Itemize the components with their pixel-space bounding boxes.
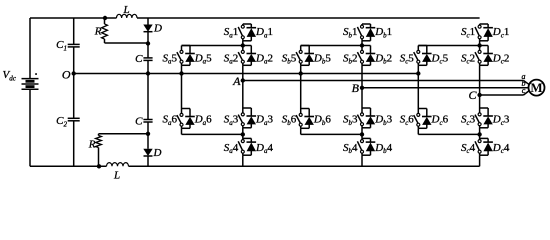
- transistor Sc3 with diode Dc3: [475, 108, 493, 128]
- label phase c: [522, 86, 526, 95]
- svg-text:R: R: [94, 26, 102, 38]
- wire phase a output: [243, 81, 530, 85]
- wire phase c output: [480, 91, 530, 96]
- junction Sa1/Sa2/Sa5: [241, 43, 245, 47]
- label Sa5: [163, 52, 178, 65]
- svg-text:Db5: Db5: [313, 52, 331, 65]
- wire Sc5 to O rail: [417, 65, 419, 73]
- wire Sc2 to node C: [479, 65, 481, 95]
- wire Sb6 to junction: [301, 128, 362, 134]
- wire Sb4 to bottom rail: [361, 155, 363, 166]
- capacitor C (top flying): [143, 58, 152, 61]
- wire Sa6 to junction: [182, 128, 243, 134]
- battery Vdc: [22, 18, 39, 166]
- wire junction to Sa4: [242, 134, 244, 138]
- svg-text:C1: C1: [56, 39, 67, 52]
- junction Sa3/Sa4/Sa6: [241, 132, 245, 136]
- wire node C to Sc3: [479, 95, 481, 108]
- wire C1 column top: [73, 18, 75, 44]
- svg-text:O: O: [62, 68, 71, 82]
- junction Sb1/Sb2/Sb5: [360, 43, 364, 47]
- label Sb5: [282, 52, 297, 65]
- label Sc6: [400, 114, 415, 127]
- svg-text:L: L: [122, 4, 129, 16]
- transistor Sb4 with diode Db4: [357, 138, 375, 155]
- svg-text:Sb2: Sb2: [343, 52, 358, 65]
- wire midpoint to Sc5: [418, 45, 479, 47]
- wire Sb3 to junction: [361, 128, 363, 135]
- label C (top flying): [135, 53, 143, 65]
- svg-text:Db3: Db3: [374, 114, 392, 127]
- label R (bottom): [88, 139, 96, 151]
- node A: [241, 78, 245, 82]
- label node C: [468, 88, 477, 102]
- wire Sc1 to midpoint: [479, 41, 481, 46]
- wire C1 to O: [73, 47, 75, 74]
- label node A: [232, 74, 241, 88]
- transistor Sa4 with diode Da4: [238, 138, 256, 155]
- svg-text:Db4: Db4: [374, 142, 392, 155]
- svg-text:Sc2: Sc2: [461, 52, 475, 65]
- label C1: [56, 39, 67, 52]
- svg-text:Sa6: Sa6: [163, 114, 178, 127]
- label Dc3: [492, 114, 510, 127]
- wire junction to C (top): [147, 44, 149, 58]
- svg-text:Sa3: Sa3: [224, 114, 239, 127]
- label L (bottom): [113, 170, 120, 182]
- label L (top): [122, 4, 129, 16]
- label Da2: [255, 52, 273, 65]
- transistor Sa6 with diode Da6: [177, 109, 195, 129]
- svg-text:c: c: [522, 86, 526, 95]
- svg-text:Da4: Da4: [255, 142, 273, 155]
- svg-text:M: M: [530, 80, 542, 95]
- svg-text:Da3: Da3: [255, 114, 273, 127]
- label Db4: [374, 142, 392, 155]
- label R (top): [94, 26, 102, 38]
- transistor Sb1 with diode Db1: [357, 24, 375, 41]
- wire Sc4 to bottom rail: [479, 155, 481, 166]
- label Sa4: [224, 142, 239, 155]
- label Db2: [374, 52, 392, 65]
- label Sa2: [224, 52, 239, 65]
- wire Sa1 to midpoint: [242, 41, 244, 46]
- svg-text:Sa4: Sa4: [224, 142, 239, 155]
- wire phase b output: [362, 87, 529, 89]
- label Da1: [255, 26, 273, 39]
- wire R to D junction (top): [105, 42, 149, 44]
- inductor L (bottom): [107, 163, 129, 167]
- transistor Sa1 with diode Da1: [238, 24, 256, 41]
- wire Sb2 to node B: [361, 65, 363, 88]
- svg-text:Sc3: Sc3: [461, 114, 476, 127]
- junction R-D-C (top): [146, 41, 150, 45]
- svg-text:Da1: Da1: [255, 26, 273, 39]
- motor M: [529, 80, 545, 96]
- svg-text:Da2: Da2: [255, 52, 273, 65]
- svg-text:Dc4: Dc4: [492, 142, 510, 155]
- transistor Sa3 with diode Da3: [238, 108, 256, 128]
- diode D (top clamp): [143, 18, 152, 44]
- wire O neutral rail: [74, 73, 419, 75]
- capacitor C1: [68, 44, 80, 47]
- wire O rail to Sb6: [300, 74, 302, 109]
- label Sc1: [461, 26, 475, 39]
- inductor L (top): [117, 14, 138, 18]
- svg-text:Db6: Db6: [313, 114, 331, 127]
- wire C2 column bottom: [73, 121, 75, 167]
- wire bottom DC rail (right): [129, 165, 480, 167]
- node B: [360, 86, 364, 90]
- svg-text:Dc6: Dc6: [431, 114, 449, 127]
- junction Sa5/Sa6/O rail: [179, 71, 183, 75]
- transistor Sb3 with diode Db3: [357, 108, 375, 128]
- junction Sc5/Sc6/O rail: [416, 71, 420, 75]
- svg-text:D: D: [153, 147, 162, 159]
- junction R-D-C (bottom): [146, 132, 150, 136]
- label Da6: [194, 114, 212, 127]
- wire C to junction (bottom): [147, 122, 149, 134]
- svg-text:Sc4: Sc4: [461, 142, 476, 155]
- transistor Sa5 with diode Da5: [177, 46, 195, 66]
- wire Sa4 to bottom rail: [242, 155, 244, 166]
- label Dc5: [431, 52, 449, 65]
- svg-text:C: C: [135, 53, 143, 65]
- svg-text:Sa1: Sa1: [224, 26, 239, 39]
- svg-text:B: B: [352, 81, 360, 95]
- transistor Sb2 with diode Db2: [357, 46, 375, 66]
- svg-text:Sc1: Sc1: [461, 26, 475, 39]
- label Sb6: [282, 114, 297, 127]
- svg-text:Dc5: Dc5: [431, 52, 449, 65]
- junction C / O rail (top): [146, 71, 150, 75]
- label Da3: [255, 114, 273, 127]
- svg-text:Sb1: Sb1: [343, 26, 358, 39]
- wire Sc6 to junction: [418, 128, 479, 134]
- junction Sb3/Sb4/Sb6: [360, 132, 364, 136]
- label Vdc: [3, 69, 17, 82]
- label C2: [56, 115, 67, 128]
- svg-text:Sb3: Sb3: [343, 114, 358, 127]
- label C (bottom flying): [135, 116, 143, 128]
- label Sc4: [461, 142, 476, 155]
- label node B: [352, 81, 360, 95]
- svg-text:C: C: [135, 116, 143, 128]
- diode D (bottom clamp): [143, 134, 152, 167]
- label Dc6: [431, 114, 449, 127]
- label Sb1: [343, 26, 358, 39]
- label D (top clamp): [153, 23, 162, 35]
- wire O rail to Sa6: [181, 74, 183, 109]
- wire Sa3 to junction: [242, 128, 244, 135]
- wire O rail to C (bottom): [147, 74, 149, 120]
- svg-text:Db2: Db2: [374, 52, 392, 65]
- junction Sc1/Sc2/Sc5: [477, 43, 481, 47]
- svg-text:Sb6: Sb6: [282, 114, 297, 127]
- wire Sb5 to O rail: [300, 65, 302, 73]
- label Sb3: [343, 114, 358, 127]
- wire R to D junction (bottom): [99, 133, 149, 135]
- svg-text:Sb4: Sb4: [343, 142, 358, 155]
- label Sb2: [343, 52, 358, 65]
- node C: [477, 93, 481, 97]
- junction Sc3/Sc4/Sc6: [477, 132, 481, 136]
- label Sa6: [163, 114, 178, 127]
- svg-text:Dc2: Dc2: [492, 52, 510, 65]
- junction bottom rail / R-L: [97, 164, 101, 168]
- label Db1: [374, 26, 392, 39]
- wire bottom DC rail (left): [30, 165, 107, 167]
- svg-text:A: A: [232, 74, 241, 88]
- label Sb4: [343, 142, 358, 155]
- transistor Sc4 with diode Dc4: [475, 138, 493, 155]
- svg-text:L: L: [113, 170, 120, 181]
- label Sc5: [400, 52, 415, 65]
- wire C to O rail (top): [147, 60, 149, 73]
- transistor Sb5 with diode Db5: [296, 46, 314, 66]
- wire midpoint to Sa5: [182, 45, 243, 47]
- label Dc2: [492, 52, 510, 65]
- wire Sb1 to midpoint: [361, 41, 363, 46]
- svg-text:R: R: [88, 139, 96, 151]
- wire O to C2: [73, 74, 75, 119]
- label Dc4: [492, 142, 510, 155]
- wire junction to Sb4: [361, 134, 363, 138]
- capacitor C2: [68, 118, 80, 121]
- svg-text:Da6: Da6: [194, 114, 212, 127]
- svg-text:Dc1: Dc1: [492, 26, 510, 39]
- svg-text:Sa5: Sa5: [163, 52, 178, 65]
- svg-text:Da5: Da5: [194, 52, 212, 65]
- svg-text:Sa2: Sa2: [224, 52, 239, 65]
- wire top DC rail (left): [30, 17, 117, 19]
- junction top rail / R-L: [103, 16, 107, 20]
- wire Sc3 to junction: [479, 128, 481, 135]
- label phase b: [522, 79, 526, 88]
- label Sc2: [461, 52, 475, 65]
- wire top DC rail (right): [137, 17, 480, 19]
- label D (bottom clamp): [153, 147, 162, 159]
- label Db6: [313, 114, 331, 127]
- label Sa1: [224, 26, 239, 39]
- svg-text:Sb5: Sb5: [282, 52, 297, 65]
- capacitor C (bottom flying): [143, 120, 152, 123]
- svg-text:Db1: Db1: [374, 26, 392, 39]
- wire node B to Sb3: [361, 88, 363, 108]
- label Dc1: [492, 26, 510, 39]
- transistor Sc2 with diode Dc2: [475, 46, 493, 66]
- wire O rail to Sc6: [417, 74, 419, 109]
- wire Sa2 to node A: [242, 65, 244, 80]
- svg-text:Dc3: Dc3: [492, 114, 510, 127]
- transistor Sb6 with diode Db6: [296, 109, 314, 129]
- transistor Sc1 with diode Dc1: [475, 24, 493, 41]
- transistor Sc6 with diode Dc6: [414, 109, 432, 129]
- svg-text:Sc6: Sc6: [400, 114, 415, 127]
- label Sc3: [461, 114, 476, 127]
- svg-text:Sc5: Sc5: [400, 52, 415, 65]
- wire node A to Sa3: [242, 81, 244, 109]
- label Db5: [313, 52, 331, 65]
- svg-text:C2: C2: [56, 115, 67, 128]
- svg-text:Vdc: Vdc: [3, 69, 17, 82]
- label Da5: [194, 52, 212, 65]
- wire Sa5 to O rail: [181, 65, 183, 73]
- label Da4: [255, 142, 273, 155]
- transistor Sc5 with diode Dc5: [414, 46, 432, 66]
- label Db3: [374, 114, 392, 127]
- svg-text:D: D: [153, 23, 162, 35]
- resistor R (top): [102, 18, 108, 43]
- resistor R (bottom): [96, 134, 102, 167]
- node O: [62, 68, 76, 82]
- junction Sb5/Sb6/O rail: [299, 71, 303, 75]
- label Sa3: [224, 114, 239, 127]
- transistor Sa2 with diode Da2: [238, 46, 256, 66]
- svg-text:C: C: [468, 88, 477, 102]
- wire junction to Sc4: [479, 134, 481, 138]
- wire midpoint to Sb5: [301, 45, 362, 47]
- label phase a: [522, 72, 526, 81]
